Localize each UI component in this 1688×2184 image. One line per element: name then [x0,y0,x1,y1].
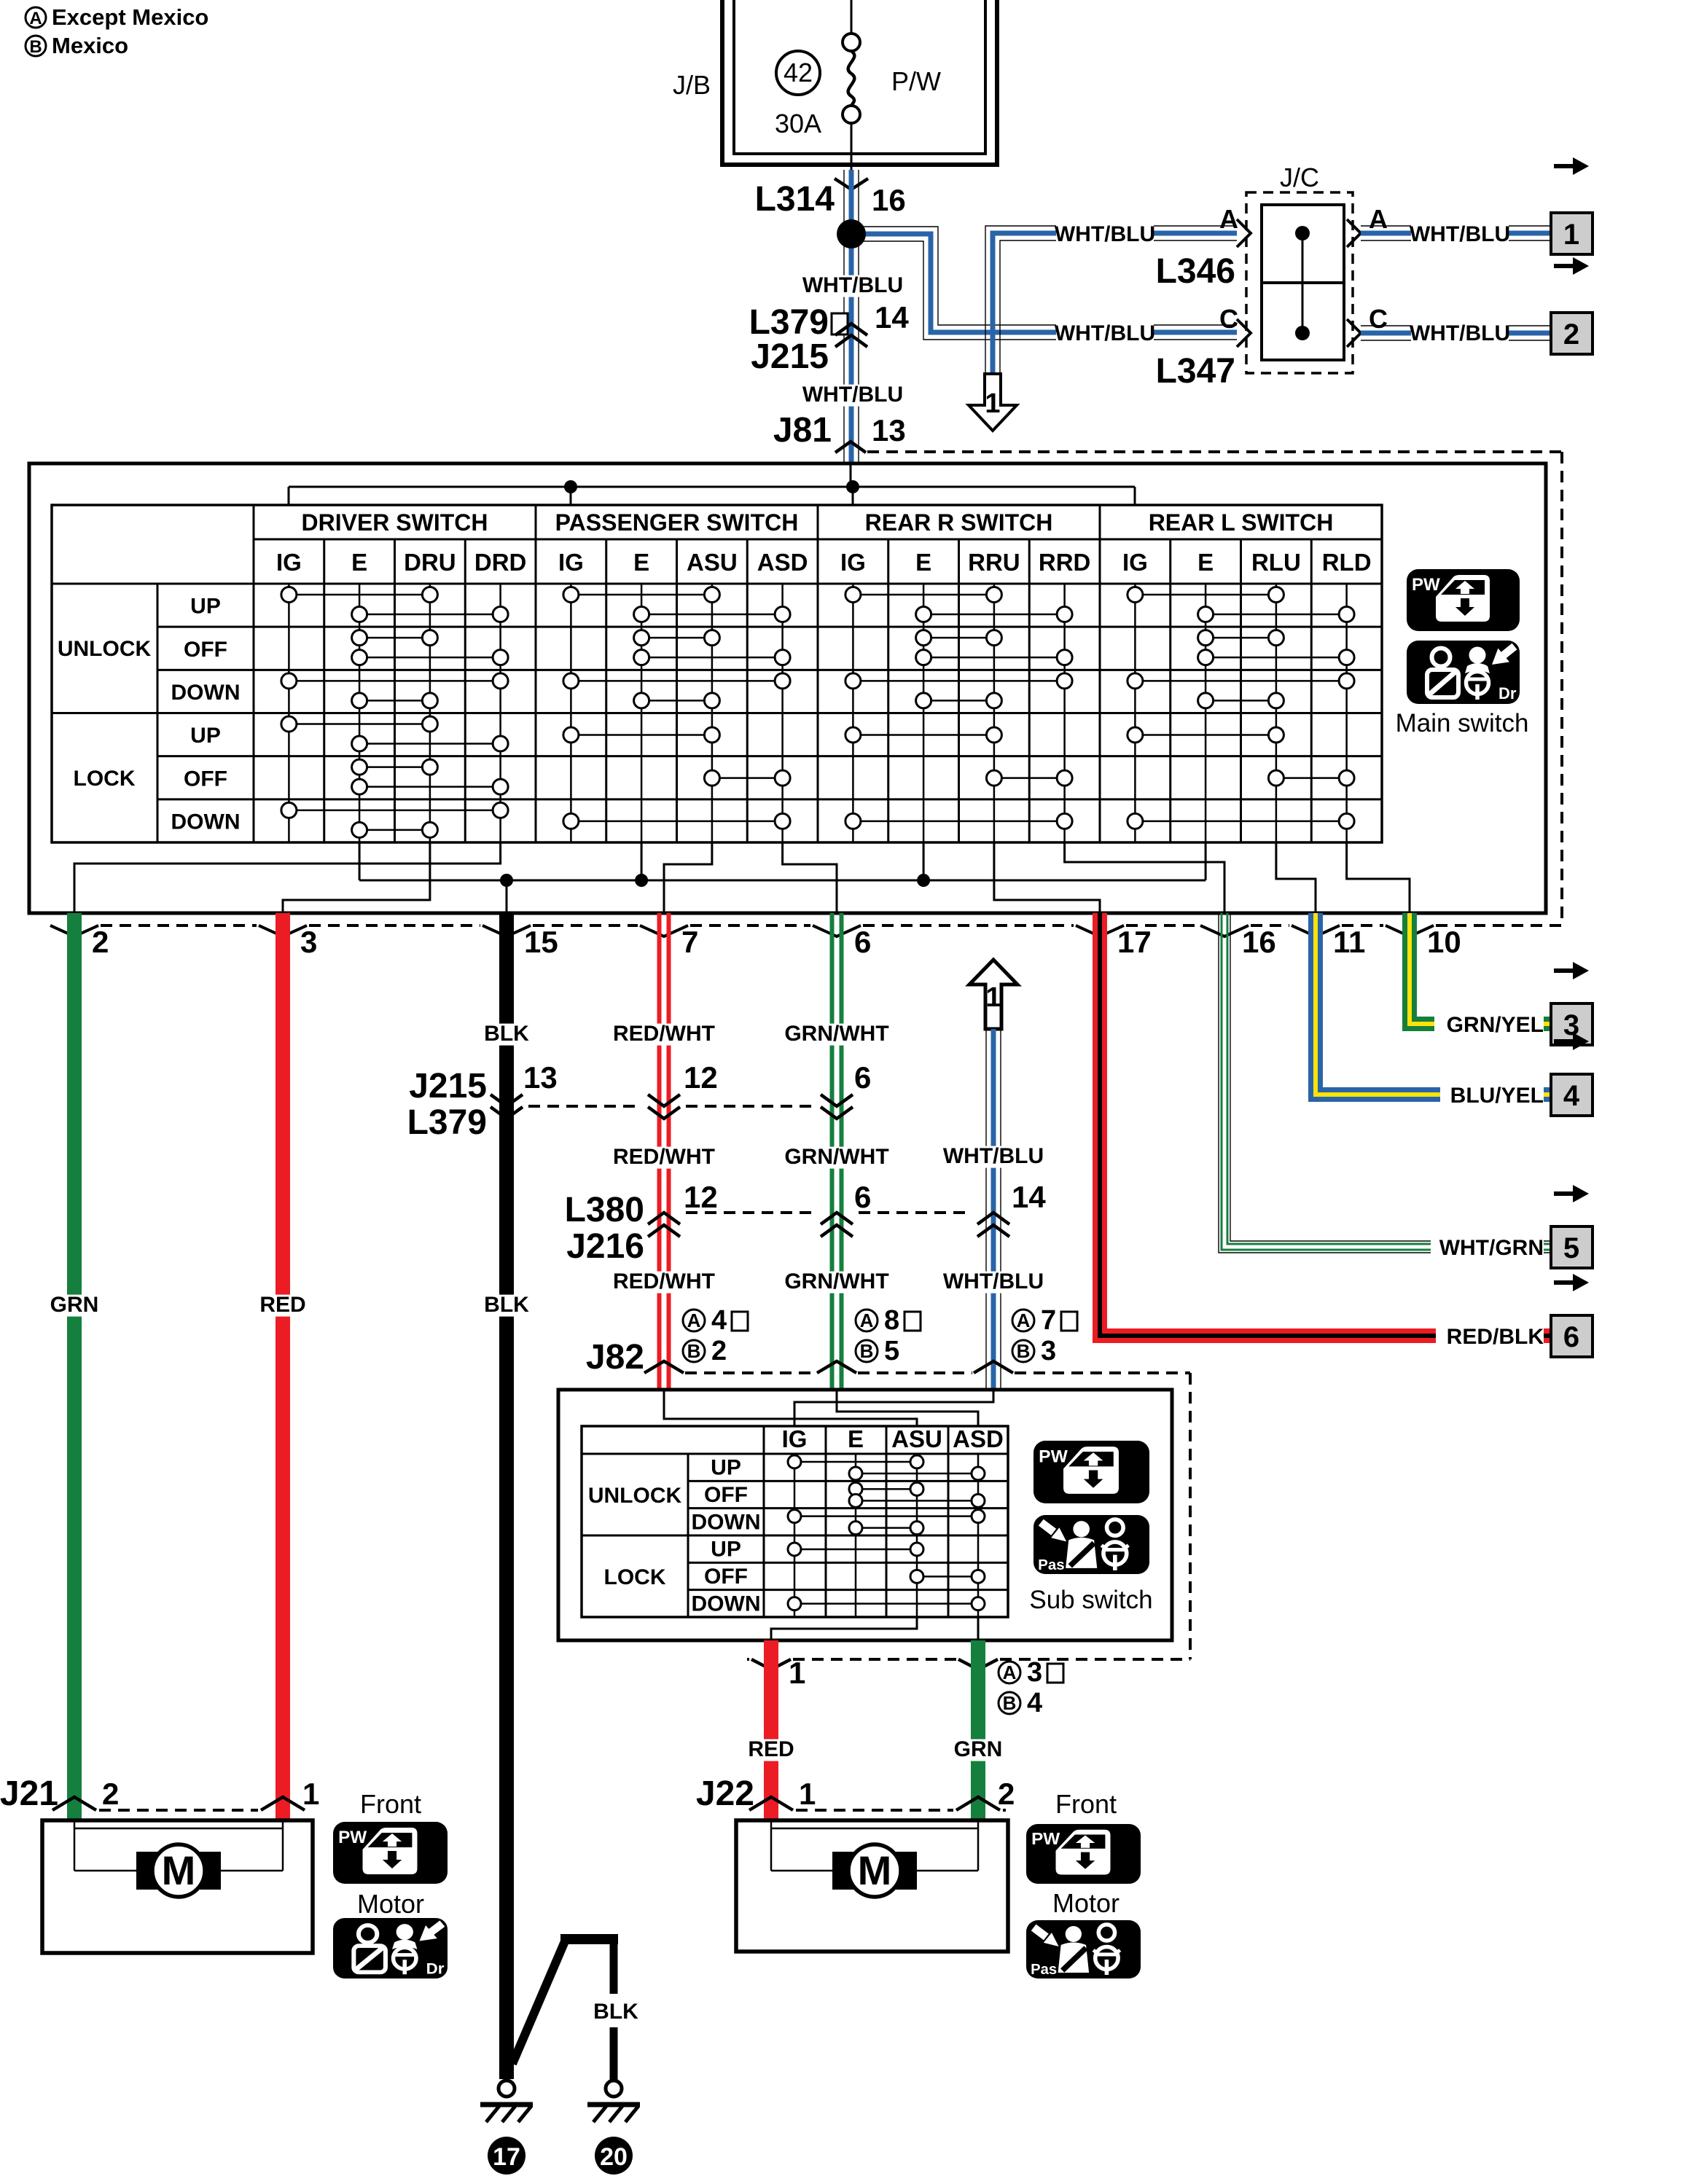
svg-text:A: A [1003,1662,1017,1683]
svg-text:B: B [29,37,42,57]
wire RLU to pin 11 [1276,842,1316,913]
sub internal wire RED/WHT to ASU [664,1390,917,1426]
svg-text:Sub switch: Sub switch [1029,1586,1152,1614]
label WHT/BLU [804,385,902,407]
svg-text:WHT/BLU: WHT/BLU [1055,222,1155,246]
svg-text:WHT/BLU: WHT/BLU [1055,321,1155,345]
label WHT/BLU on row C [1056,324,1154,345]
legend circle A: Except Mexico [26,7,46,28]
connector J82 [685,1371,816,1374]
svg-text:6: 6 [1563,1321,1579,1353]
junction connector J/C dashed outline [1246,192,1353,373]
chevron L346 A right [1347,219,1361,247]
svg-text:1: 1 [789,1656,805,1690]
wire DRU to pin 3 [283,842,430,913]
wire 11 BLU/YEL to box 4 [1316,913,1551,1095]
svg-text:IG: IG [782,1425,808,1452]
passenger motor PW icon [1026,1824,1141,1884]
svg-text:ASU: ASU [891,1425,942,1452]
off-page box 1 [1551,213,1593,254]
svg-text:J22: J22 [696,1774,754,1813]
svg-text:16: 16 [1242,925,1276,959]
svg-text:BLK: BLK [484,1293,529,1317]
front motor Dr icon [333,1918,448,1978]
svg-text:RED/WHT: RED/WHT [613,1269,715,1293]
label GRN/YEL [1434,1015,1544,1037]
wire 16 WHT/GRN to box 5 [1230,913,1551,1241]
svg-text:GRN/YEL: GRN/YEL [1447,1013,1544,1037]
connector chevron [640,925,688,936]
svg-text:LOCK: LOCK [604,1565,666,1589]
svg-text:J/B: J/B [673,70,711,100]
pin A3/B4 [999,1662,1020,1683]
svg-text:7: 7 [681,925,698,959]
wire color labels [481,1024,532,1046]
svg-text:UP: UP [711,1538,741,1562]
svg-text:14: 14 [1012,1180,1046,1214]
svg-text:B: B [1003,1692,1017,1714]
svg-text:OFF: OFF [184,638,227,662]
svg-text:RED/BLK: RED/BLK [1447,1325,1544,1349]
switch contacts [1135,594,1276,596]
sub switch PW icon [1033,1441,1149,1503]
svg-text:3: 3 [1041,1336,1056,1366]
svg-text:RRU: RRU [968,549,1020,576]
wire 15 BLK [499,913,514,2079]
svg-text:RED/WHT: RED/WHT [613,1022,715,1046]
wire RED sub to J22 [764,1640,778,1820]
legend circle B: Mexico [26,36,46,56]
svg-text:UP: UP [190,595,221,619]
passenger motor Pas icon [1026,1920,1141,1978]
J/C box [1262,205,1344,360]
svg-text:J215: J215 [751,337,829,376]
svg-text:13: 13 [523,1060,558,1095]
wire 10 GRN/YEL to box 3 [1410,913,1551,1024]
svg-text:Pas: Pas [1031,1962,1057,1978]
svg-text:2: 2 [998,1777,1015,1811]
svg-text:B: B [860,1340,874,1362]
svg-text:DRIVER SWITCH: DRIVER SWITCH [302,509,488,536]
svg-text:BLK: BLK [593,2000,638,2024]
svg-text:RED: RED [748,1737,794,1761]
wire WHT/BLU row A to off-page arrow 1 [985,226,1237,374]
label BLU/YEL [1440,1086,1544,1108]
svg-text:4: 4 [1563,1080,1580,1112]
sub internal wire GRN/WHT to ASD [837,1390,978,1426]
off-page box 5 [1551,1226,1593,1268]
svg-text:GRN: GRN [50,1293,99,1317]
svg-text:J216: J216 [566,1227,644,1266]
front driver window motor box [42,1820,313,1953]
wire RLD to pin 10 [1347,842,1410,913]
svg-text:1: 1 [799,1777,816,1811]
chevron L347 C right [1347,319,1361,347]
svg-text:UP: UP [711,1456,741,1480]
off-page box 3 [1551,1003,1593,1045]
svg-text:WHT/BLU: WHT/BLU [802,273,903,297]
sub wire ASU to exit 1 [771,1617,917,1640]
switch contact rails [794,1454,796,1617]
connector chevron [259,925,307,936]
svg-text:DRD: DRD [474,549,527,576]
wire WHT/BLU branch junction to J/C row C [851,227,1237,325]
svg-text:2: 2 [1563,318,1579,351]
wire ASD to pin 6 [783,842,837,913]
sub internal wire WHT/BLU to IG [794,1390,993,1426]
sub exit chevron 2 [958,1659,998,1670]
motor M [832,1852,917,1890]
wire ASU to pin 7 [664,842,712,913]
svg-text:BLU/YEL: BLU/YEL [1450,1084,1544,1108]
wire 2 GRN [67,913,82,1820]
wire 7 RED/WHT [657,913,662,1390]
svg-text:20: 20 [600,2143,628,2171]
off-page box 4 [1551,1074,1593,1116]
svg-text:12: 12 [684,1180,718,1214]
svg-text:L379: L379 [749,303,829,342]
connector chevron [1076,925,1124,936]
wire to fuse [851,0,853,34]
sub switch table grid [582,1426,1008,1617]
svg-text:PW: PW [1039,1447,1068,1466]
sub exit chevron 1 [751,1659,791,1670]
svg-text:2: 2 [102,1777,119,1811]
wire GRN sub to J22 [971,1640,985,1820]
pin A4/B2 [683,1310,705,1331]
svg-text:DOWN: DOWN [171,810,241,834]
motor internal wiring [770,1820,773,1871]
svg-text:1: 1 [302,1777,319,1811]
wire WHT/BLU J/C C to box 2 [1361,325,1551,326]
svg-text:IG: IG [840,549,866,576]
svg-text:1: 1 [1563,219,1579,251]
svg-text:IG: IG [558,549,584,576]
svg-text:A: A [1017,1310,1031,1331]
svg-text:A: A [1219,204,1238,234]
svg-text:WHT/BLU: WHT/BLU [1410,321,1510,345]
wire RRU to pin 17 [994,842,1100,913]
svg-text:B: B [687,1340,701,1362]
connector chevron [50,925,98,936]
svg-text:OFF: OFF [704,1565,748,1589]
connector J215/L379 [528,1105,642,1108]
chevron L347 C left [1237,319,1251,347]
wire WHT/BLU J/C A to box 1 [1361,225,1551,227]
off-page box 2 [1551,313,1593,354]
svg-text:Except Mexico: Except Mexico [52,4,208,30]
svg-text:E: E [351,549,367,576]
svg-text:OFF: OFF [184,767,227,791]
sub switch box [558,1390,1172,1640]
svg-text:M: M [162,1847,196,1893]
wire E bus to pin 15 [506,880,508,913]
junction block J/B [722,0,997,165]
connector chevron [1386,925,1434,936]
svg-text:42: 42 [784,58,813,87]
svg-text:L379: L379 [407,1103,487,1142]
svg-text:WHT/BLU: WHT/BLU [943,1269,1044,1293]
motor M [136,1852,221,1890]
wire DRD to pin 2 [74,842,501,913]
connector chevron [482,925,531,936]
svg-text:REAR R SWITCH: REAR R SWITCH [865,509,1053,536]
svg-text:ASU: ASU [687,549,738,576]
svg-text:Dr: Dr [426,1960,445,1977]
switch contact rails [570,584,572,842]
svg-text:6: 6 [854,1180,871,1214]
svg-text:DOWN: DOWN [692,1592,761,1616]
svg-text:11: 11 [1333,925,1365,959]
E ground bus [359,842,1206,880]
svg-text:BLK: BLK [484,1022,529,1046]
svg-text:A: A [29,9,42,28]
svg-text:5: 5 [1563,1232,1579,1264]
svg-text:Motor: Motor [1052,1888,1120,1918]
svg-text:1: 1 [985,388,1000,419]
svg-text:GRN: GRN [954,1737,1003,1761]
svg-text:DOWN: DOWN [692,1510,761,1534]
sub switch Pas icon [1033,1515,1149,1574]
motor internal wiring [74,1820,76,1871]
svg-text:L314: L314 [755,180,835,219]
svg-text:WHT/BLU: WHT/BLU [802,383,903,407]
svg-text:WHT/BLU: WHT/BLU [943,1144,1044,1168]
svg-text:J81: J81 [773,411,832,450]
connector chevron [1292,925,1340,936]
svg-text:17: 17 [1117,925,1152,959]
svg-text:DOWN: DOWN [171,681,241,705]
svg-text:E: E [915,549,931,576]
svg-text:UP: UP [190,724,221,748]
svg-text:WHT/GRN: WHT/GRN [1439,1236,1544,1260]
svg-text:12: 12 [684,1060,718,1095]
E bus junctions [500,874,513,887]
svg-text:RED/WHT: RED/WHT [613,1145,715,1169]
svg-text:LOCK: LOCK [74,767,136,791]
label WHT/BLU on row A [1056,224,1154,246]
svg-text:A: A [860,1310,874,1331]
svg-text:REAR L SWITCH: REAR L SWITCH [1149,509,1334,536]
svg-text:C: C [1219,304,1238,334]
fuse 42 30A P/W [776,51,820,95]
svg-text:ASD: ASD [757,549,808,576]
svg-text:Mexico: Mexico [52,33,128,58]
switch table grid [52,505,1382,842]
label BLK [590,2002,641,2024]
label WHT/GRN [1431,1238,1544,1260]
svg-text:IG: IG [276,549,302,576]
svg-text:13: 13 [872,413,906,447]
svg-text:17: 17 [493,2143,520,2171]
wire WHT/BLU from L314 to junction [843,170,845,464]
switch contacts [289,594,430,596]
svg-text:Dr: Dr [1499,684,1517,702]
svg-text:PASSENGER SWITCH: PASSENGER SWITCH [555,509,799,536]
svg-text:GRN/WHT: GRN/WHT [784,1269,888,1293]
svg-text:L380: L380 [565,1191,644,1229]
label RED [743,1739,799,1761]
switch contacts [853,594,994,596]
svg-text:8: 8 [884,1305,899,1336]
label WHT/BLU [804,275,902,297]
svg-text:Motor: Motor [357,1889,424,1919]
svg-text:4: 4 [1027,1688,1042,1718]
svg-text:1: 1 [985,982,1001,1013]
svg-text:GRN/WHT: GRN/WHT [784,1022,888,1046]
switch contact rails [852,584,854,842]
main switch box [29,463,1546,913]
switch contact rails [1134,584,1136,842]
off-page box 6 [1551,1315,1593,1357]
svg-text:ASD: ASD [953,1425,1004,1452]
wire BLK branch to ground 20 [512,1941,565,2064]
wire 6 GRN/WHT [830,913,835,1390]
front passenger window motor box [736,1820,1008,1952]
svg-text:WHT/BLU: WHT/BLU [1410,222,1510,246]
svg-text:A: A [687,1310,701,1331]
wire 3 RED [276,913,290,1820]
svg-text:C: C [1369,304,1388,334]
junction node [837,219,866,248]
off-page arrow 1 (up) [969,960,1017,1029]
svg-text:10: 10 [1427,925,1461,959]
wire IG feed inside box [850,464,852,487]
svg-text:RED: RED [259,1293,305,1317]
svg-text:UNLOCK: UNLOCK [588,1484,682,1508]
svg-text:15: 15 [524,925,558,959]
svg-text:16: 16 [872,183,906,217]
chevron L346 A left [1237,219,1251,247]
connector chevron [813,925,861,936]
svg-text:J82: J82 [586,1338,644,1377]
main switch PW icon [1407,569,1520,631]
front motor PW icon [333,1822,448,1884]
svg-text:RLD: RLD [1322,549,1372,576]
switch contacts [571,594,712,596]
svg-text:L346: L346 [1156,252,1235,291]
connector chevron [1200,925,1249,936]
switch contact rails [288,584,290,842]
svg-text:3: 3 [300,925,317,959]
fuse element [848,51,855,106]
svg-text:6: 6 [854,1060,871,1095]
pin A8/B5 [856,1310,878,1331]
svg-text:3: 3 [1027,1657,1042,1688]
connector L379/J215 pin 14 [832,313,848,334]
svg-text:PW: PW [338,1828,367,1847]
J/C internal link [1302,233,1304,333]
svg-text:7: 7 [1041,1305,1056,1336]
svg-text:6: 6 [854,925,871,959]
svg-text:UNLOCK: UNLOCK [58,637,152,661]
svg-text:J215: J215 [409,1067,487,1105]
IG bus [289,486,1135,488]
svg-text:L347: L347 [1156,352,1235,391]
wire RRD to pin 16 [1065,842,1224,913]
svg-text:4: 4 [711,1305,727,1336]
pin A7/B3 [1012,1310,1034,1331]
main connector dashed outline [867,450,1562,453]
svg-text:2: 2 [711,1336,727,1366]
svg-text:5: 5 [884,1336,899,1366]
wire 17 RED/BLK to box 6 [1100,913,1551,1336]
svg-text:J/C: J/C [1280,163,1319,192]
svg-text:J21: J21 [0,1774,58,1813]
svg-text:GRN/WHT: GRN/WHT [784,1145,888,1169]
sub connector dashed outline [1189,1373,1192,1659]
svg-text:PW: PW [1412,575,1440,595]
svg-text:A: A [1369,204,1388,234]
svg-text:E: E [633,549,649,576]
svg-text:Pas: Pas [1038,1557,1065,1573]
svg-text:Front: Front [1055,1789,1117,1819]
svg-text:RLU: RLU [1251,549,1301,576]
off-page arrow 1 (down) [969,374,1017,431]
svg-text:OFF: OFF [704,1483,748,1507]
svg-text:Front: Front [360,1789,421,1819]
svg-text:E: E [1197,549,1214,576]
svg-text:M: M [858,1847,892,1893]
sub wire ASD to exit 2 [977,1617,980,1640]
svg-text:30A: 30A [775,109,821,138]
svg-text:2: 2 [92,925,109,959]
connector L380/J216 [686,1211,815,1214]
svg-text:RRD: RRD [1039,549,1091,576]
ground 17 [499,2081,515,2097]
svg-text:Main switch: Main switch [1396,709,1529,737]
switch contacts [794,1461,917,1463]
IG bus junctions [564,480,577,493]
wire WHT/BLU to sub switch [985,1029,987,1390]
label RED/BLK [1436,1327,1544,1349]
svg-text:IG: IG [1122,549,1148,576]
svg-text:DRU: DRU [404,549,456,576]
main switch Dr icon [1407,641,1520,704]
wire fuse to L314 [851,123,853,170]
ground 20 [606,2081,622,2097]
label GRN [950,1739,1006,1761]
svg-text:B: B [1017,1340,1031,1362]
svg-text:E: E [848,1425,864,1452]
svg-text:14: 14 [875,300,909,334]
svg-text:PW: PW [1031,1830,1060,1848]
svg-text:P/W: P/W [891,66,941,96]
